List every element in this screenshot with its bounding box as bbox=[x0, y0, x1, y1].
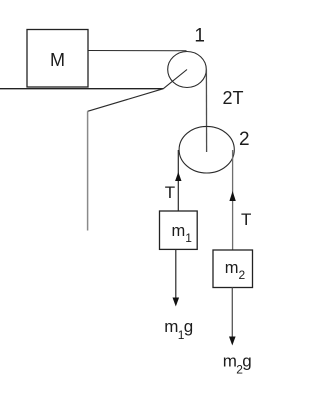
support arm from table edge to pulley 1 axle bbox=[163, 70, 187, 89]
svg-text:T: T bbox=[165, 183, 175, 202]
tension arrow up (right rope) bbox=[229, 191, 235, 201]
svg-text:2T: 2T bbox=[223, 88, 244, 108]
support arm from leg corner to table edge bbox=[88, 89, 164, 112]
pulley 2 bbox=[179, 126, 234, 173]
wire rope pulley 2 to block m1 bbox=[177, 150, 179, 211]
pulley 1 bbox=[168, 52, 207, 88]
wire rope pulley 2 to block m2 bbox=[232, 150, 234, 250]
svg-text:T: T bbox=[241, 210, 251, 229]
weight vector of m2 bbox=[231, 288, 233, 339]
block M bbox=[27, 30, 88, 88]
tension arrow up (left rope) bbox=[175, 172, 181, 181]
block m1 bbox=[160, 211, 198, 249]
wire rope M to pulley 1 bbox=[88, 50, 187, 52]
weight vector of m1 bbox=[175, 250, 177, 300]
arrowhead down m2 bbox=[229, 337, 236, 346]
arrowhead down m1 bbox=[173, 298, 180, 307]
svg-text:2: 2 bbox=[239, 129, 250, 150]
wire rope pulley 1 to pulley 2 axle bbox=[205, 70, 207, 153]
block m2 bbox=[213, 250, 253, 288]
svg-text:1: 1 bbox=[194, 26, 205, 47]
svg-text:M: M bbox=[50, 50, 65, 70]
table leg (gray vertical) bbox=[87, 111, 89, 230]
table surface line bbox=[0, 88, 163, 90]
